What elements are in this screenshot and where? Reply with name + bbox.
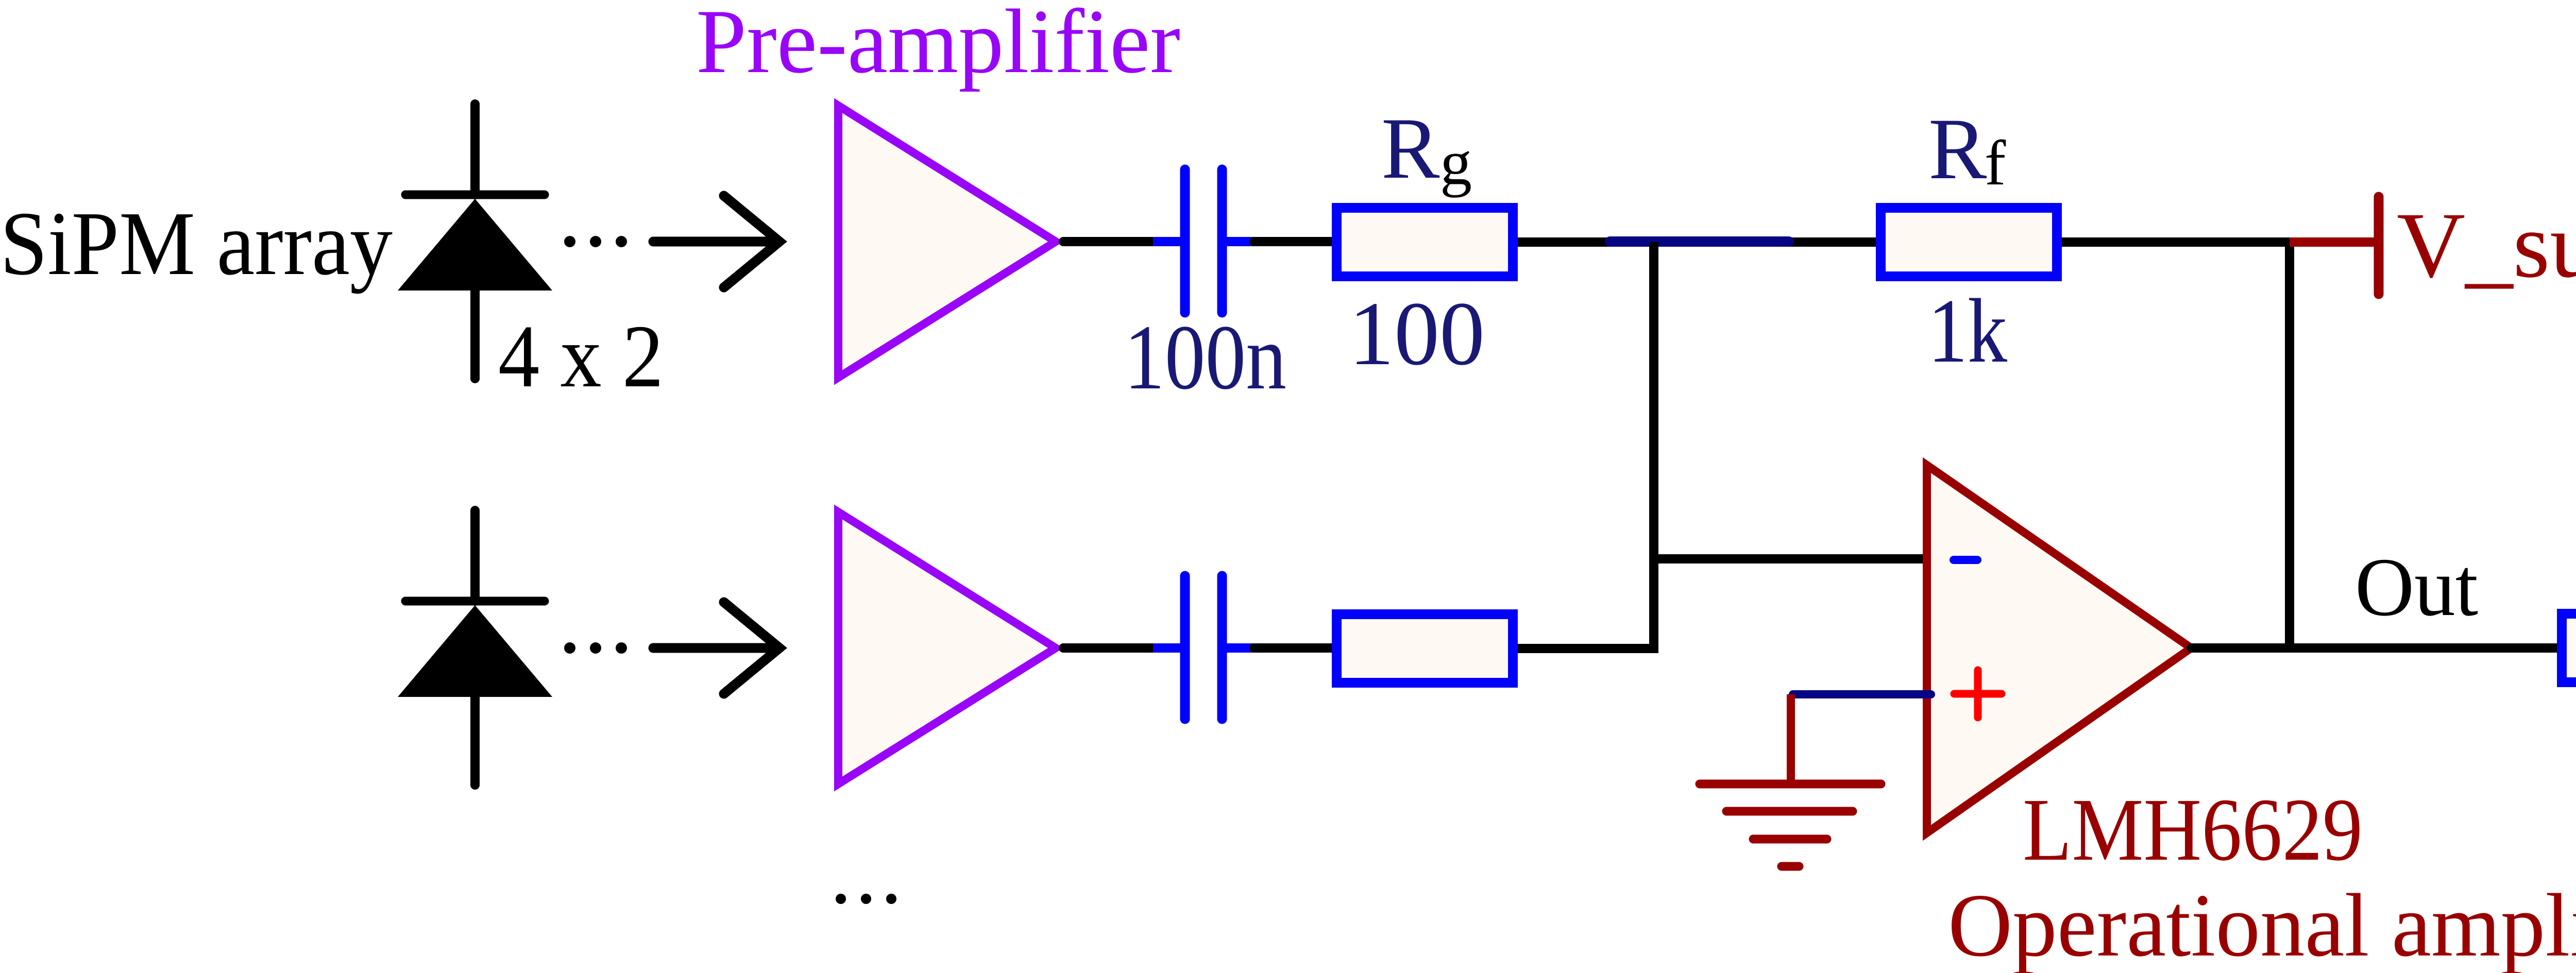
- label LMH6629: [2023, 780, 2363, 879]
- photodiode D1: [398, 104, 552, 379]
- svg-text:g: g: [1440, 127, 1472, 198]
- resistor Rg: [1337, 208, 1513, 277]
- capacitor C1: [1153, 169, 1254, 313]
- wire Rg to Rf: [1518, 237, 1876, 247]
- wire A1 output: [1063, 237, 1155, 246]
- terminal V_sum: [2374, 197, 2384, 294]
- node dots row1: [564, 236, 627, 247]
- svg-text:100n: 100n: [1124, 306, 1286, 408]
- svg-text:100: 100: [1349, 283, 1485, 384]
- net segment (inverting node, navy): [1610, 236, 1789, 247]
- wire C1 to Rg: [1254, 237, 1332, 246]
- wire A2 output: [1063, 643, 1155, 653]
- capacitor C2: [1153, 576, 1254, 719]
- node dots row2: [564, 642, 627, 654]
- label 100n: [1124, 306, 1286, 408]
- svg-text:R: R: [1381, 100, 1440, 197]
- svg-text:LMH6629: LMH6629: [2023, 780, 2363, 879]
- op-amp U1 LMH6629: [1927, 465, 2191, 833]
- photodiode D2: [398, 510, 552, 785]
- label V_sum: [2397, 194, 2576, 297]
- svg-text:Pre-amplifier: Pre-amplifier: [696, 0, 1180, 92]
- label Out: [2355, 541, 2478, 634]
- arrow input 2: [653, 602, 779, 694]
- resistor RL: [2562, 614, 2576, 682]
- svg-text:Out: Out: [2355, 541, 2478, 634]
- svg-text:4 x 2: 4 x 2: [498, 306, 664, 406]
- label 4 x 2: [498, 306, 664, 406]
- arrow input 1: [653, 196, 779, 287]
- svg-text:R: R: [1928, 100, 1987, 197]
- label Rf: [1928, 100, 2006, 198]
- wire Rf to output node (feedback): [2062, 242, 2290, 648]
- ellipsis more channels: [836, 894, 896, 904]
- resistor R2: [1337, 614, 1513, 683]
- label SiPM array: [0, 193, 393, 294]
- label 100: [1349, 283, 1485, 384]
- minus symbol: [1954, 556, 1977, 564]
- svg-text:1k: 1k: [1928, 280, 2007, 382]
- wire non-inverting input (navy): [1793, 690, 1931, 698]
- label Operational amplifier: [1948, 875, 2576, 973]
- plus symbol: [1954, 670, 2002, 718]
- resistor Rf: [1881, 208, 2057, 277]
- label Pre-amplifier: [696, 0, 1180, 92]
- svg-text:SiPM array: SiPM array: [0, 193, 393, 294]
- wire C2 to R2: [1254, 643, 1332, 653]
- wire V_sum stub: [2290, 237, 2374, 247]
- label Rg: [1381, 100, 1472, 198]
- op-amp pre-amplifier A1: [838, 106, 1056, 378]
- label 1k: [1928, 280, 2007, 382]
- wire R2 to junction: [1518, 644, 1658, 653]
- wire to inverting input: [1654, 554, 1931, 564]
- svg-text:Operational amplifier: Operational amplifier: [1948, 875, 2576, 973]
- op-amp pre-amplifier A2: [838, 512, 1056, 784]
- wire junction vertical: [1649, 242, 1658, 648]
- svg-text:V_sum: V_sum: [2397, 194, 2576, 297]
- svg-text:f: f: [1985, 128, 2006, 198]
- wire op-amp output: [2191, 643, 2557, 653]
- ground G1: [1700, 694, 1881, 866]
